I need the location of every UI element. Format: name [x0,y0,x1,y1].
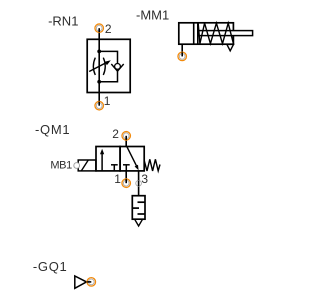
throttle arc left [93,58,95,75]
throttle adjustment arrow [89,62,107,71]
node MM1 port [178,52,187,61]
silencer exhaust triangle [135,219,143,226]
svg-text:1: 1 [104,94,111,108]
air supply GQ1 triangle [75,276,87,288]
cylinder return spring [198,23,233,43]
check valve seat [111,64,123,71]
valve QM1 body: right position square [120,147,144,171]
node QM1 port 3 [136,180,142,186]
svg-text:3: 3 [141,172,148,186]
node junction dot bottom [97,80,101,84]
left square blocked port T [111,164,118,166]
cylinder piston rod [198,31,253,36]
node junction dot top [97,50,101,54]
svg-text:-RN1: -RN1 [48,14,78,29]
cylinder piston [193,23,195,44]
wire: RN1 check-valve bypass branch [99,51,117,64]
wire: QM1 port 2 stub [125,136,127,147]
wire: QM1 port 1 stub [125,171,127,183]
node QM1 port 1 [122,179,131,188]
svg-text:-MM1: -MM1 [136,7,169,22]
throttle check valve RN1 body [87,39,130,92]
valve return spring [144,159,160,171]
solenoid MB1 box [78,160,96,171]
solenoid pin node [74,163,80,169]
silencer baffle middle [132,207,139,209]
node RN1 port 1 [95,101,104,110]
throttle arc right [103,58,105,75]
silencer baffle bottom [138,213,146,215]
valve QM1 body: left position square [96,147,120,171]
right square blocked port T (port 1) [123,164,130,166]
node QM1 port 2 [122,132,131,141]
svg-text:2: 2 [112,127,119,141]
svg-text:2: 2 [105,22,112,36]
wire: MM1 port stub [181,44,183,56]
right square flow path 2->3 diagonal [127,147,137,168]
check valve ball [115,64,121,70]
wire: QM1 port 3 down to silencer [138,171,140,196]
silencer baffle top [138,201,146,203]
cylinder vent triangle [227,44,234,50]
node GQ1 port [87,278,96,287]
svg-text:-GQ1: -GQ1 [33,259,68,274]
wire: RN1 main vertical line port2 to port1 [98,28,100,106]
solenoid diagonal [81,160,88,171]
svg-text:1: 1 [114,172,121,186]
wire: GQ1 stub [87,281,92,283]
left square flow path 1->2 arrow [101,152,103,171]
svg-text:MB1: MB1 [50,160,72,172]
svg-text:-QM1: -QM1 [35,122,70,137]
node RN1 port 2 [95,24,104,33]
silencer body [132,196,145,220]
cylinder MM1 body [179,23,234,44]
